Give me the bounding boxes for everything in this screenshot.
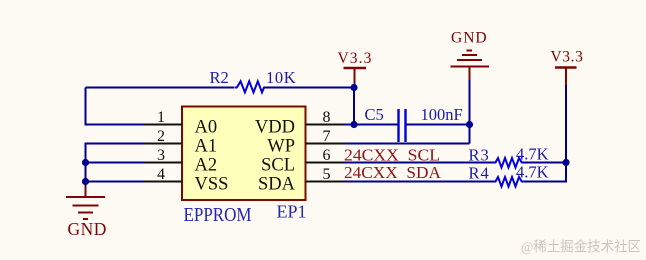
svg-text:A1: A1 (195, 137, 218, 157)
svg-text:A0: A0 (195, 118, 218, 138)
svg-text:VSS: VSS (195, 175, 229, 195)
pin 5 stub (306, 181, 345, 183)
pin 1 stub (144, 124, 182, 126)
wire: SDA run to R4 (344, 181, 494, 183)
junction R3/V3.3 (562, 159, 569, 166)
svg-text:@稀土掘金技术社区: @稀土掘金技术社区 (521, 240, 641, 256)
svg-text:10K: 10K (266, 68, 296, 87)
wire: left A1/A2/VSS vertical to ground (86, 144, 145, 190)
svg-text:4: 4 (157, 166, 165, 183)
junction pin4 (82, 178, 89, 185)
svg-text:6: 6 (323, 147, 331, 164)
svg-text:5: 5 (323, 166, 331, 183)
wire: WP to GND vertical (344, 143, 470, 145)
chip EP1 body (182, 107, 306, 201)
svg-text:WP: WP (267, 137, 295, 157)
svg-text:R4: R4 (469, 164, 490, 183)
resistor R3 (494, 158, 525, 168)
junction at V3.3/R2 (350, 84, 357, 91)
wire: down to VDD pin (353, 88, 355, 125)
wire: top horizontal to R2 (86, 87, 235, 89)
junction C5/GND (466, 121, 473, 128)
svg-text:4.7K: 4.7K (516, 163, 549, 182)
svg-text:R3: R3 (469, 146, 490, 165)
wire: SCL run to R3 (344, 162, 494, 164)
junction pin3 (82, 159, 89, 166)
svg-text:2: 2 (157, 128, 165, 145)
svg-text:GND: GND (451, 30, 488, 47)
svg-text:3: 3 (157, 147, 165, 164)
svg-text:V3.3: V3.3 (551, 49, 584, 66)
svg-text:EP1: EP1 (277, 202, 307, 222)
svg-text:V3.3: V3.3 (338, 50, 373, 67)
svg-text:C5: C5 (365, 105, 384, 124)
pin 4 stub (144, 181, 182, 183)
wire: pin4 to vertical (86, 181, 145, 183)
pin 3 stub (144, 162, 182, 164)
svg-text:7: 7 (323, 128, 331, 145)
svg-text:SDA: SDA (258, 175, 296, 195)
wire: R2 right to V3.3 junction (264, 87, 354, 89)
resistor R4 (494, 177, 525, 187)
svg-text:R2: R2 (210, 68, 229, 87)
wire: R4 to right vertical and up (525, 163, 567, 182)
svg-text:1: 1 (157, 109, 165, 126)
svg-text:VDD: VDD (255, 118, 295, 138)
svg-text:A2: A2 (195, 156, 218, 176)
svg-text:4.7K: 4.7K (516, 145, 549, 164)
svg-text:8: 8 (323, 109, 331, 126)
wire: R3 to right vertical (525, 162, 567, 164)
svg-text:GND: GND (68, 219, 107, 239)
wire: pin3 to vertical (86, 162, 145, 164)
junction at VDD (350, 121, 357, 128)
capacitor C5 (397, 109, 399, 142)
wire: VDD to C5 left plate (344, 124, 398, 126)
resistor R2 (235, 81, 266, 92)
svg-text:100nF: 100nF (421, 105, 463, 124)
pin 2 stub (144, 143, 182, 145)
svg-text:EPPROM: EPPROM (184, 204, 252, 226)
ground (bottom left) (66, 186, 105, 219)
wire: C5 right plate to GND vertical (406, 124, 470, 126)
wire: top pull-up net left vertical (86, 88, 145, 125)
pin 8 stub (306, 124, 345, 126)
wire: V3.3 right vertical (565, 85, 567, 163)
pin 7 stub (306, 143, 345, 145)
svg-text:SCL: SCL (261, 156, 295, 176)
svg-text:24CXX SDA: 24CXX SDA (344, 163, 441, 182)
pin 6 stub (306, 162, 345, 164)
wire: GND vertical down to WP (469, 80, 471, 144)
